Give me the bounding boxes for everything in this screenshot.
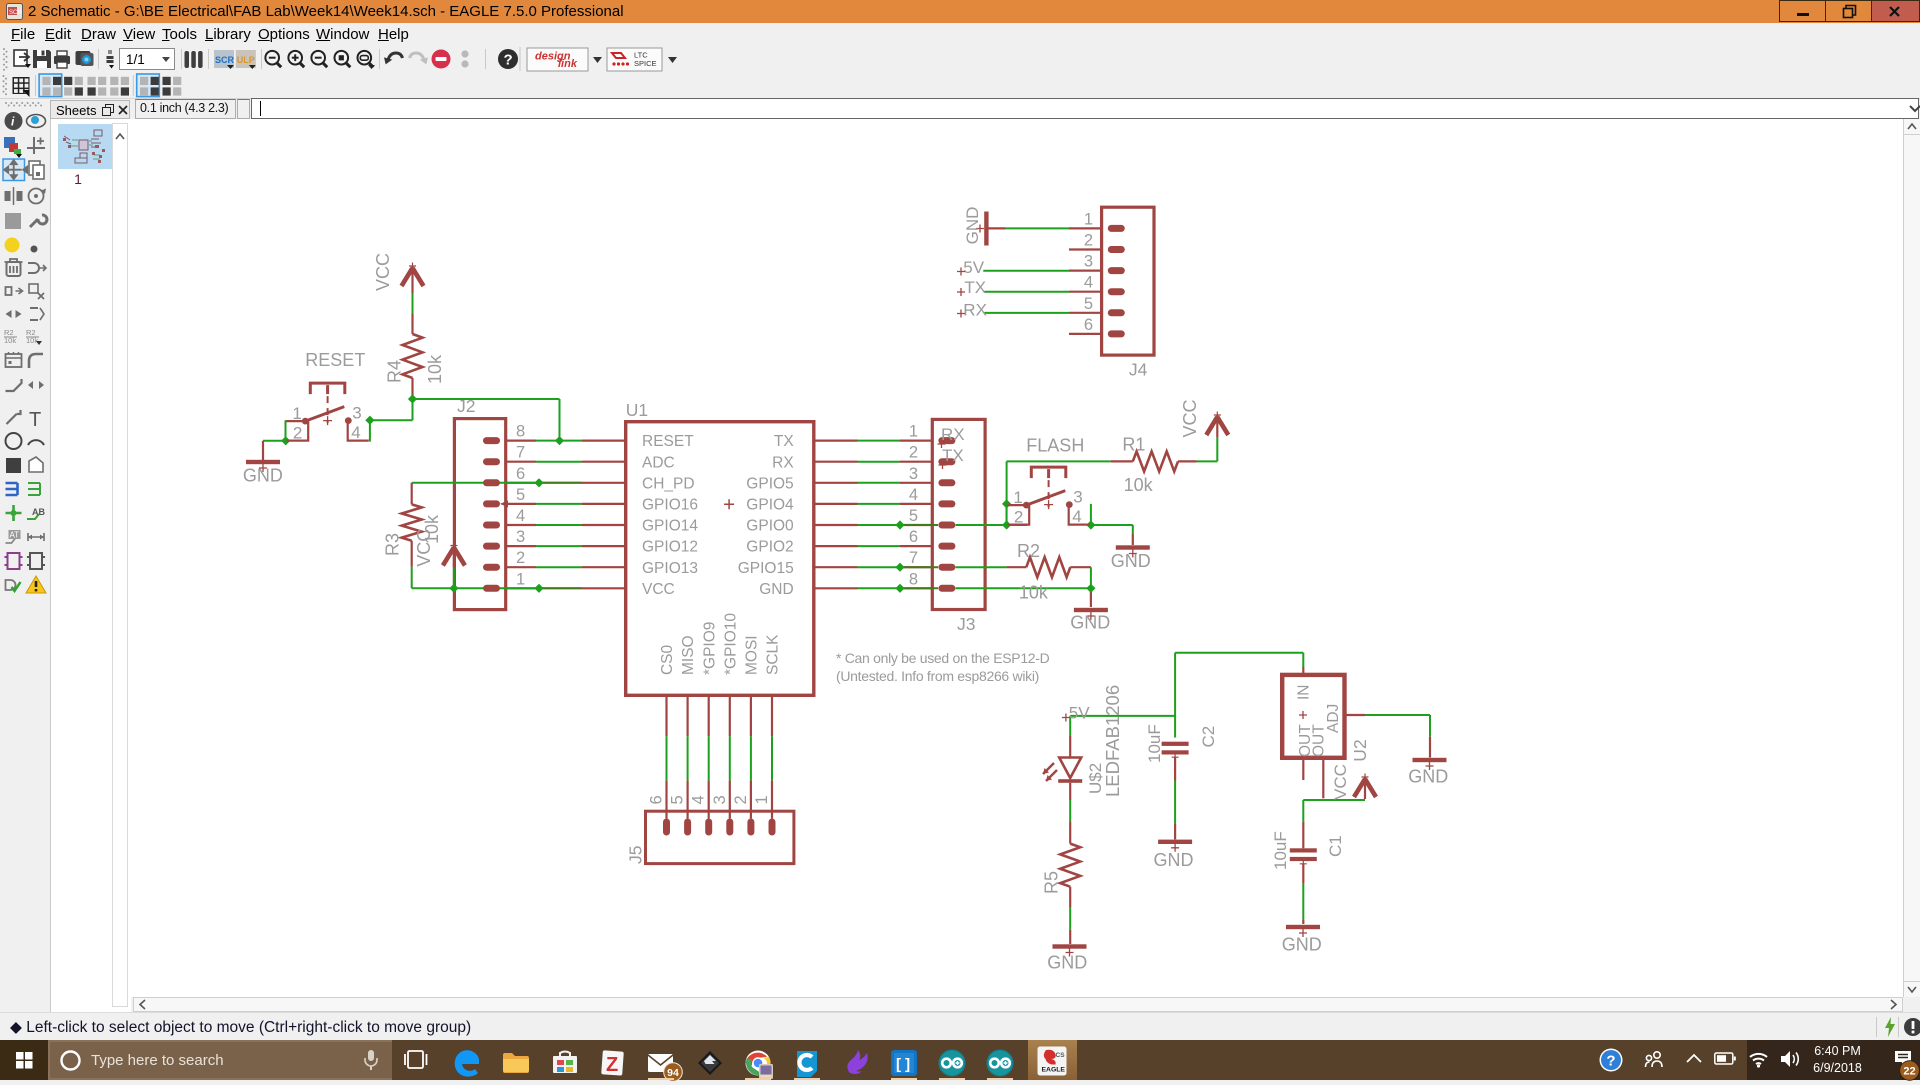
svg-text:10k: 10k — [1124, 475, 1154, 495]
svg-text:T: T — [29, 409, 41, 431]
svg-text:3: 3 — [352, 404, 361, 423]
svg-text:?: ? — [1606, 1053, 1615, 1070]
svg-text:J3: J3 — [957, 614, 975, 634]
svg-text:GPIO14: GPIO14 — [642, 518, 698, 535]
svg-text:GND: GND — [759, 581, 793, 598]
svg-text:TX: TX — [964, 278, 986, 297]
svg-text:LEDFAB1206: LEDFAB1206 — [1102, 685, 1123, 797]
svg-text:GPIO5: GPIO5 — [746, 475, 793, 492]
svg-text:link: link — [558, 58, 578, 70]
svg-text:R4: R4 — [385, 360, 405, 383]
svg-text:GND: GND — [1154, 850, 1194, 870]
svg-text:6: 6 — [648, 795, 666, 804]
svg-text:2: 2 — [1014, 508, 1023, 527]
svg-text:22: 22 — [1903, 1066, 1915, 1078]
svg-text:3: 3 — [909, 465, 918, 483]
svg-text:IN: IN — [1296, 685, 1313, 701]
svg-text:GPIO13: GPIO13 — [642, 560, 698, 577]
svg-text:FLASH: FLASH — [1026, 436, 1084, 456]
svg-text:C2: C2 — [1199, 726, 1218, 748]
svg-text:* Can only be used on the ESP1: * Can only be used on the ESP12-D — [836, 650, 1050, 666]
svg-text:RX: RX — [941, 425, 965, 444]
svg-text:10uF: 10uF — [1145, 724, 1164, 763]
svg-text:7: 7 — [516, 444, 525, 462]
svg-text:1: 1 — [292, 404, 301, 423]
svg-text:GND: GND — [963, 207, 982, 245]
svg-text:ADJ: ADJ — [1325, 704, 1342, 733]
svg-text:*GPIO9: *GPIO9 — [701, 622, 718, 675]
svg-text:2: 2 — [732, 795, 750, 804]
svg-text:3: 3 — [1073, 488, 1082, 507]
svg-text:5: 5 — [516, 486, 525, 504]
svg-text:J5: J5 — [626, 846, 646, 864]
svg-text:5: 5 — [1084, 295, 1093, 313]
svg-text:3: 3 — [711, 795, 729, 804]
svg-text:GPIO15: GPIO15 — [738, 560, 794, 577]
svg-text:(Untested. Info from esp8266 w: (Untested. Info from esp8266 wiki) — [836, 668, 1039, 684]
svg-text:R5: R5 — [1042, 871, 1062, 894]
svg-text:ULP: ULP — [237, 55, 255, 65]
svg-text:GND: GND — [1047, 953, 1087, 973]
svg-text:RESET: RESET — [642, 433, 694, 450]
svg-text:8: 8 — [516, 423, 525, 441]
svg-text:TX: TX — [942, 446, 964, 465]
svg-text:GND: GND — [1282, 935, 1322, 955]
svg-text:4: 4 — [351, 423, 360, 442]
svg-text:CS: CS — [1056, 1052, 1066, 1059]
svg-text:2: 2 — [516, 549, 525, 567]
svg-text:GND: GND — [1111, 551, 1151, 571]
svg-text:RX: RX — [772, 454, 794, 471]
svg-text:GPIO12: GPIO12 — [642, 539, 698, 556]
svg-text:2: 2 — [293, 424, 302, 443]
svg-text:J2: J2 — [457, 396, 475, 416]
svg-text:R1: R1 — [1122, 435, 1145, 455]
svg-text:AB: AB — [32, 507, 45, 517]
svg-text:CS0: CS0 — [659, 644, 676, 675]
svg-text:4: 4 — [1084, 274, 1093, 292]
svg-text:4: 4 — [1072, 507, 1081, 526]
svg-text:1: 1 — [753, 795, 771, 804]
svg-text:U2: U2 — [1350, 739, 1370, 761]
svg-text:TX: TX — [774, 433, 794, 450]
svg-text:RESET: RESET — [305, 350, 365, 370]
svg-text:5: 5 — [909, 507, 918, 525]
svg-text:GPIO4: GPIO4 — [746, 497, 794, 514]
svg-text:6: 6 — [516, 465, 525, 483]
svg-text:5: 5 — [669, 795, 687, 804]
svg-text:*GPIO10: *GPIO10 — [722, 613, 739, 675]
svg-text:R2: R2 — [1017, 541, 1040, 561]
svg-text:SCH: SCH — [9, 10, 22, 16]
svg-text:AT: AT — [10, 531, 20, 540]
svg-text:3: 3 — [516, 528, 525, 546]
svg-text:10k: 10k — [1019, 583, 1049, 603]
svg-text:SCLK: SCLK — [765, 634, 782, 675]
svg-text:GND: GND — [243, 466, 283, 486]
svg-text:4: 4 — [690, 795, 708, 804]
svg-text:GND: GND — [1408, 767, 1448, 787]
svg-text:2: 2 — [1084, 232, 1093, 250]
svg-text:1: 1 — [1013, 488, 1022, 507]
svg-text:Z: Z — [606, 1054, 618, 1076]
svg-text:4: 4 — [516, 507, 525, 525]
svg-text:VCC: VCC — [373, 253, 393, 291]
svg-text:C1: C1 — [1326, 835, 1345, 857]
svg-text:EAGLE: EAGLE — [1042, 1067, 1066, 1074]
svg-text:1: 1 — [516, 570, 525, 588]
svg-text:2: 2 — [909, 444, 918, 462]
svg-text:R3: R3 — [383, 533, 403, 556]
svg-text:5V: 5V — [963, 258, 984, 277]
svg-text:SCR: SCR — [215, 55, 235, 65]
svg-text:7: 7 — [909, 549, 918, 567]
svg-text:CH_PD: CH_PD — [642, 475, 695, 492]
svg-text:8: 8 — [909, 570, 918, 588]
svg-text:1: 1 — [909, 423, 918, 441]
svg-text:3: 3 — [1084, 253, 1093, 271]
svg-text:U1: U1 — [626, 400, 648, 420]
svg-text:[ ]: [ ] — [896, 1056, 910, 1073]
svg-text:1/1: 1/1 — [126, 52, 145, 67]
svg-text:SPICE: SPICE — [634, 59, 657, 68]
svg-text:VCC: VCC — [414, 529, 434, 567]
svg-text:1: 1 — [1084, 210, 1093, 228]
svg-text:94: 94 — [667, 1067, 679, 1079]
svg-text:VCC: VCC — [1180, 399, 1200, 437]
svg-text:MOSI: MOSI — [744, 635, 761, 675]
svg-text:GND: GND — [1070, 613, 1110, 633]
svg-text:6: 6 — [1084, 316, 1093, 334]
svg-text:?: ? — [504, 52, 513, 69]
svg-text:ADC: ADC — [642, 454, 675, 471]
svg-text:GPIO0: GPIO0 — [746, 518, 794, 535]
svg-text:5V: 5V — [1069, 704, 1090, 723]
svg-text:4: 4 — [909, 486, 918, 504]
svg-text:GPIO16: GPIO16 — [642, 497, 698, 514]
svg-text:VCC: VCC — [1331, 764, 1350, 800]
svg-text:6: 6 — [909, 528, 918, 546]
svg-text:RX: RX — [963, 301, 987, 320]
svg-text:MISO: MISO — [680, 635, 697, 675]
svg-text:J4: J4 — [1129, 360, 1148, 380]
svg-text:VCC: VCC — [642, 581, 675, 598]
svg-text:10uF: 10uF — [1271, 831, 1290, 870]
svg-text:10k: 10k — [425, 354, 445, 384]
svg-text:GPIO2: GPIO2 — [746, 539, 793, 556]
